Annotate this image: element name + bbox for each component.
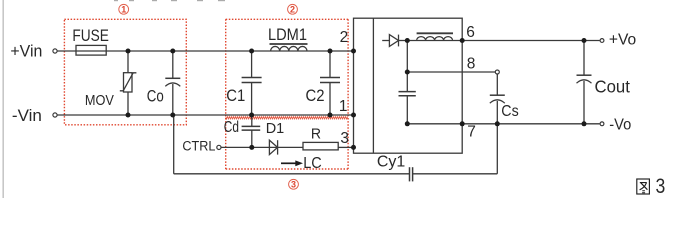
terminal -Vin [53, 113, 57, 117]
diode D1 [269, 140, 277, 154]
svg-text:FUSE: FUSE [72, 26, 109, 45]
svg-text:8: 8 [467, 55, 476, 72]
svg-text:-Vin: -Vin [12, 106, 42, 125]
circled number 2 [288, 4, 298, 14]
box 3 top zigzag edge [226, 117, 348, 120]
svg-text:3: 3 [656, 175, 666, 198]
capacitor Co [165, 51, 180, 115]
dashed box 1 (input protection) [64, 19, 186, 125]
figure label: hanzi tu (drawn) [637, 179, 650, 194]
svg-text:LDM1: LDM1 [268, 25, 307, 44]
svg-text:Cy1: Cy1 [377, 153, 405, 170]
svg-text:+Vin: +Vin [10, 42, 42, 61]
wire pin 8 [407, 71, 495, 73]
wire CTRL line [221, 146, 354, 148]
circled number 3 [289, 179, 299, 189]
resistor R [303, 142, 338, 150]
circled number 1 [119, 4, 129, 14]
capacitor Cd [242, 115, 261, 147]
terminal +Vin [53, 49, 57, 53]
svg-text:+Vo: +Vo [609, 32, 636, 49]
varistor MOV [120, 51, 137, 115]
svg-text:7: 7 [467, 124, 476, 141]
svg-text:C1: C1 [226, 86, 245, 105]
wire pin 6 to +Vo [462, 40, 599, 42]
capacitor Cout [577, 41, 592, 124]
junction dots bottom rail [126, 113, 357, 118]
svg-text:-Vo: -Vo [609, 117, 631, 134]
module internal inductor [407, 33, 462, 40]
capacitor C2 [320, 51, 340, 115]
wire top rail +Vin to module pin 2 [57, 50, 353, 52]
top cropped text remnants [114, 0, 225, 1]
svg-text:Cout: Cout [595, 76, 631, 96]
wire bottom return left segment [174, 115, 410, 174]
svg-text:D1: D1 [266, 120, 285, 137]
module inner isolation line [372, 18, 374, 153]
module internal diode [382, 35, 407, 47]
svg-text:Cd: Cd [224, 119, 239, 136]
common mode choke LDM1 [270, 44, 308, 51]
terminal pin 8 circle [495, 70, 499, 74]
svg-text:2: 2 [340, 29, 349, 46]
svg-text:Cs: Cs [501, 103, 519, 120]
capacitor Cy1 [410, 167, 413, 181]
svg-text:3: 3 [291, 180, 296, 190]
dashed box 3 (control circuit) [226, 118, 348, 169]
svg-text:R: R [311, 127, 321, 143]
svg-text:Co: Co [147, 86, 164, 105]
svg-text:1: 1 [121, 5, 126, 15]
svg-text:1: 1 [339, 98, 348, 115]
wire Cs down to Cy1 [496, 124, 498, 174]
fuse FUSE [76, 45, 106, 55]
svg-text:CTRL: CTRL [182, 139, 215, 155]
dashed box 2 (EMI filter) [226, 19, 348, 116]
terminal CTRL [217, 145, 221, 149]
terminal +Vo [600, 39, 604, 43]
module internal capacitor [399, 41, 416, 124]
capacitor Cs [490, 74, 505, 124]
capacitor C1 [242, 51, 262, 115]
junction dots module and output [405, 38, 587, 126]
wire Cy1 to Cs node [413, 173, 498, 175]
left page border [2, 0, 4, 198]
module box U1 [354, 18, 463, 153]
wire pin 7 rail to -Vo [407, 123, 599, 125]
wire bottom rail -Vin to module pin 1 [57, 114, 353, 116]
junction dots ctrl wire [249, 145, 356, 150]
svg-text:6: 6 [466, 24, 475, 41]
svg-text:C2: C2 [306, 86, 325, 105]
svg-text:LC: LC [303, 155, 322, 172]
svg-text:3: 3 [340, 130, 349, 147]
junction dots top rail [126, 49, 357, 54]
svg-text:MOV: MOV [85, 92, 114, 109]
svg-text:2: 2 [290, 5, 295, 15]
arrow LC [281, 160, 303, 166]
terminal -Vo [600, 122, 604, 126]
